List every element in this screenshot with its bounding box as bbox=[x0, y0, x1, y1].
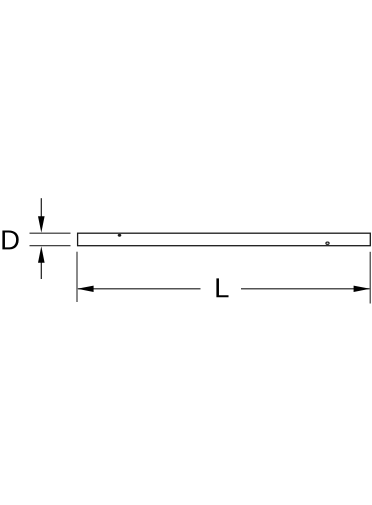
label D bbox=[2, 230, 18, 249]
dimension D lower leader line bbox=[40, 261, 42, 279]
dimension D lower arrowhead (points up) bbox=[38, 246, 45, 262]
bar body (rod outline) bbox=[78, 233, 371, 246]
dimension D upper leader line bbox=[40, 198, 42, 218]
dimension L extension line left bbox=[76, 252, 78, 302]
dimension L line left segment bbox=[78, 288, 201, 290]
dimension L extension line right bbox=[369, 252, 371, 304]
dimension D extension line bottom bbox=[30, 245, 71, 247]
dimension L line right segment bbox=[241, 288, 370, 290]
dimension L right arrowhead (points right) bbox=[354, 286, 370, 292]
dimension L left arrowhead (points left) bbox=[77, 286, 93, 292]
hole right (small ellipse near bottom edge) bbox=[326, 242, 329, 244]
dimension D extension line top bbox=[30, 232, 71, 234]
dimension D upper arrowhead (points down) bbox=[38, 216, 45, 232]
label L bbox=[216, 278, 228, 297]
hole left (filled dot near top edge) bbox=[118, 234, 122, 237]
